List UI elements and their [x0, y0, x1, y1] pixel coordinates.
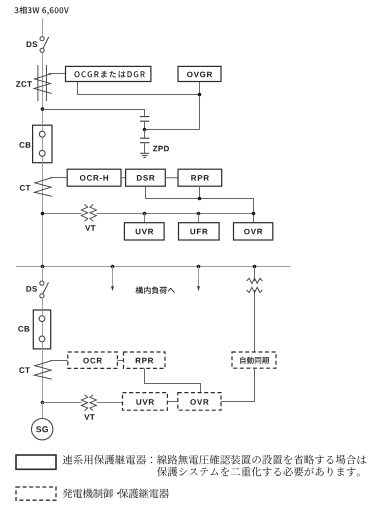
wire	[42, 349, 44, 403]
label DS1	[27, 41, 38, 47]
legend generator relay text	[63, 489, 169, 499]
wire	[221, 368, 255, 401]
relay RPR U5	[178, 169, 222, 186]
label to in-plant load	[136, 286, 176, 294]
label RPR	[191, 175, 209, 181]
load arrow 1	[111, 267, 114, 292]
wire	[199, 186, 201, 198]
capacitor ZPD lower	[140, 130, 149, 154]
node main line tap	[41, 107, 45, 111]
synchronous generator SG	[32, 419, 53, 440]
relay OCGR/DGR U1	[66, 66, 151, 81]
zero-phase CT ZCT	[34, 65, 52, 101]
disconnect switch DS2	[40, 281, 49, 298]
synchronizer box	[232, 352, 276, 368]
label UVR	[136, 229, 154, 235]
wire	[42, 163, 44, 267]
relay UFR U7	[179, 223, 220, 240]
voltage transformer VT2	[247, 278, 263, 292]
capacitor ZPD upper	[140, 117, 149, 130]
relay OVGR U2	[178, 66, 221, 81]
wire	[78, 82, 200, 95]
node bus generator feeder	[41, 265, 45, 269]
node UFR tap	[197, 212, 201, 216]
current transformer CT1	[34, 177, 52, 196]
label CB1	[19, 142, 30, 148]
relay OCR generator box	[68, 352, 118, 368]
disconnect switch DS1	[40, 37, 49, 53]
wire	[254, 267, 256, 353]
node RPR junction	[198, 197, 202, 201]
legend solid box symbol	[16, 455, 56, 469]
label ZCT	[16, 81, 32, 87]
wire	[42, 267, 44, 282]
wire	[117, 360, 123, 362]
node bus load feeder 1	[111, 265, 115, 269]
voltage transformer VT3	[81, 395, 96, 411]
label UFR	[190, 229, 207, 235]
label CT2	[19, 367, 30, 373]
relay OVR U8	[234, 223, 273, 240]
wire	[144, 214, 146, 223]
wire	[146, 186, 254, 223]
wire	[167, 401, 177, 403]
label OCR	[83, 358, 102, 364]
wire	[43, 402, 123, 404]
wire main bus	[16, 266, 291, 268]
wire	[50, 177, 67, 179]
label OVR2	[190, 399, 208, 405]
relay OVR generator box	[178, 393, 221, 411]
relay RPR generator box	[124, 352, 166, 368]
relay DSR U4	[126, 169, 166, 186]
wire	[42, 403, 44, 419]
legend interconnection relay text line 2	[157, 467, 360, 477]
label SG	[36, 426, 48, 432]
label CB2	[18, 326, 29, 332]
circuit breaker CB1	[33, 125, 52, 163]
label DS2	[26, 286, 37, 292]
wire	[145, 129, 200, 131]
legend dashed box symbol	[16, 487, 56, 500]
label UVR2	[136, 399, 154, 405]
wire	[121, 177, 126, 179]
label auto synchronizer	[240, 357, 269, 364]
label OVR	[244, 229, 262, 235]
node UVR tap	[143, 212, 147, 216]
current transformer CT2	[34, 360, 52, 379]
wire	[42, 298, 44, 310]
relay UVR U6	[124, 223, 164, 240]
relay UVR generator box	[123, 393, 168, 411]
node bus load feeder 2	[197, 265, 201, 269]
wire	[43, 110, 145, 117]
legend interconnection relay text line 1	[63, 455, 366, 465]
wire VT secondary bus	[43, 213, 254, 215]
wire	[42, 18, 44, 36]
wire	[165, 177, 178, 179]
node OCGR/OVGR common	[198, 93, 202, 97]
label VT1	[85, 225, 95, 231]
wire	[198, 214, 200, 223]
node VT bus left	[41, 212, 45, 216]
label OCR-H	[80, 175, 108, 181]
circuit breaker CB2	[33, 310, 50, 349]
label ZPD	[153, 146, 169, 152]
load arrow 2	[197, 267, 200, 292]
wire	[50, 360, 68, 362]
label VT3	[84, 414, 94, 420]
label RPR2	[136, 358, 154, 364]
label OCGR or DGR	[74, 71, 144, 78]
ground	[140, 153, 149, 157]
wire	[145, 368, 201, 392]
label OVGR	[187, 72, 212, 78]
wire	[42, 52, 44, 125]
label CT1	[20, 185, 31, 191]
relay OCR-H U3	[67, 169, 121, 186]
voltage transformer VT1	[81, 204, 96, 221]
node ZPD tap	[143, 128, 147, 132]
label DSR	[137, 175, 155, 181]
node generator VT tap	[41, 401, 45, 405]
node bus VT feeder	[253, 265, 257, 269]
wire	[199, 82, 201, 130]
wire	[49, 73, 66, 75]
node OVR feed crossing	[252, 212, 256, 216]
label 3-phase 3-wire 6,600V source	[15, 6, 69, 14]
